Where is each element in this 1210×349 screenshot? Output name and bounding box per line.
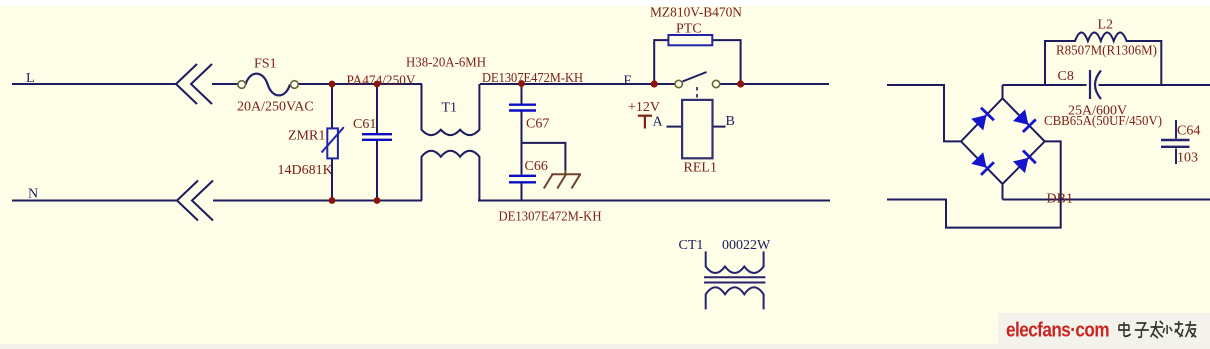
svg-text:L: L bbox=[26, 71, 35, 86]
bridge diode D3 bottom-left bbox=[972, 153, 994, 175]
svg-text:FS1: FS1 bbox=[254, 57, 277, 72]
svg-text:H38-20A-6MH: H38-20A-6MH bbox=[406, 56, 486, 71]
svg-text:elecfans·com: elecfans·com bbox=[1006, 320, 1109, 342]
capacitor C66 plates bbox=[509, 176, 536, 183]
svg-text:DE1307E472M-KH: DE1307E472M-KH bbox=[482, 71, 583, 86]
capacitor C61 leads bbox=[376, 84, 378, 133]
transformer CT1 core lines bbox=[704, 276, 765, 278]
svg-text:C8: C8 bbox=[1058, 69, 1074, 84]
chinese characters shao bbox=[1163, 321, 1183, 337]
bridge bottom output bbox=[1002, 184, 1004, 200]
right block: N rail step under bridge bbox=[887, 141, 1061, 227]
varistor ZMR1 leads bbox=[331, 84, 333, 128]
+12V power bar bbox=[638, 116, 652, 129]
svg-text:PTC: PTC bbox=[676, 22, 702, 37]
bridge top output to rail bbox=[1002, 85, 1004, 98]
wire N T1 right to gap bbox=[478, 200, 830, 202]
svg-text:103: 103 bbox=[1177, 151, 1198, 166]
relay pin B wire bbox=[713, 126, 726, 128]
wire C67 to C66 bbox=[521, 112, 523, 175]
fuse FS1 body bbox=[246, 74, 291, 96]
PTC resistor body bbox=[668, 35, 712, 45]
relay REL1 coil box bbox=[682, 100, 712, 158]
connector chevrons N line bbox=[177, 181, 213, 221]
relay pin A wire bbox=[667, 126, 683, 128]
transformer CT1 top winding bbox=[704, 251, 765, 309]
svg-text:DB1: DB1 bbox=[1047, 192, 1073, 207]
chinese characters fa bbox=[1151, 321, 1163, 338]
svg-text:DE1307E472M-KH: DE1307E472M-KH bbox=[499, 210, 602, 225]
PTC branch left vertical bbox=[654, 40, 668, 83]
svg-text:N: N bbox=[28, 187, 38, 202]
connector chevrons L line bbox=[176, 64, 212, 104]
bridge diode D4 bottom-right bbox=[1014, 151, 1036, 173]
svg-text:+12V: +12V bbox=[628, 100, 660, 115]
svg-text:R8507M(R1306M): R8507M(R1306M) bbox=[1056, 44, 1157, 59]
fuse FS1 terminal circles bbox=[238, 81, 246, 89]
svg-text:20A/250VAC: 20A/250VAC bbox=[237, 100, 314, 115]
transformer T1 top winding bbox=[422, 84, 480, 135]
DC top rail to C8 bbox=[1003, 84, 1087, 86]
wire F junction to switch bbox=[654, 83, 675, 85]
transformer T1 bottom winding bbox=[422, 151, 480, 201]
bridge diode D1 top-left bbox=[972, 108, 994, 130]
earth ground symbol bbox=[544, 170, 581, 189]
varistor ZMR1 body bbox=[322, 127, 344, 158]
wire L chevron to fuse bbox=[212, 83, 238, 85]
PTC branch right vertical bbox=[712, 40, 740, 83]
svg-text:CBB65A(50UF/450V): CBB65A(50UF/450V) bbox=[1044, 114, 1162, 129]
wire between switch circles (hidden ends) bbox=[720, 83, 744, 85]
junction dots bbox=[329, 80, 745, 204]
transformer CT1 bottom winding bbox=[706, 287, 764, 309]
svg-text:C66: C66 bbox=[525, 159, 548, 174]
elecfans watermark band bbox=[998, 313, 1210, 344]
capacitor C8 plates bbox=[1090, 70, 1101, 99]
svg-text:CT1: CT1 bbox=[679, 238, 704, 253]
DC top rail C8 to right edge bbox=[1099, 84, 1210, 86]
DC bottom rail to right edge bbox=[1003, 199, 1210, 201]
wire N chevron to T1 bbox=[213, 200, 422, 202]
capacitor C61 plates bbox=[362, 134, 392, 140]
svg-text:C64: C64 bbox=[1177, 124, 1200, 139]
svg-text:PA474/250V: PA474/250V bbox=[347, 74, 416, 89]
capacitor C66 lead to N rail bbox=[521, 184, 523, 201]
chinese characters you bbox=[1185, 321, 1196, 337]
svg-text:C61: C61 bbox=[353, 117, 376, 132]
wire fuse to T1, junctions at ZMR1/C61 bbox=[298, 83, 422, 85]
svg-text:A: A bbox=[653, 115, 664, 130]
wire L left segment bbox=[12, 83, 176, 85]
capacitor C67 lead from rail bbox=[521, 84, 523, 104]
capacitor C64 bbox=[1161, 120, 1190, 164]
svg-text:L2: L2 bbox=[1098, 18, 1114, 33]
chinese characters zi bbox=[1135, 323, 1149, 337]
svg-text:C67: C67 bbox=[526, 117, 549, 132]
svg-text:F: F bbox=[624, 74, 632, 89]
wire branch to earth bbox=[522, 143, 566, 170]
switch blade bbox=[683, 72, 707, 82]
svg-text:00022W: 00022W bbox=[722, 238, 771, 253]
switch S1 contact circles bbox=[675, 80, 682, 87]
svg-text:REL1: REL1 bbox=[684, 161, 717, 176]
wire T1 right to F junction bbox=[480, 83, 654, 85]
svg-text:MZ810V-B470N: MZ810V-B470N bbox=[650, 6, 742, 21]
svg-text:T1: T1 bbox=[442, 101, 458, 116]
inductor L2 branch bbox=[1045, 33, 1161, 86]
bridge DB1 diamond bbox=[961, 98, 1045, 184]
bridge diode D2 top-right bbox=[1014, 110, 1036, 132]
right block: top rail to bridge bbox=[887, 85, 961, 141]
wire N left segment bbox=[12, 200, 177, 202]
svg-text:B: B bbox=[726, 114, 735, 129]
wire switch to PTC right junction then right segment bbox=[744, 83, 829, 85]
relay actuator dashed link bbox=[696, 87, 698, 99]
chinese characters dian bbox=[1119, 322, 1131, 336]
svg-text:14D681K: 14D681K bbox=[278, 163, 333, 178]
capacitor C67 plates bbox=[509, 105, 536, 111]
svg-text:ZMR1: ZMR1 bbox=[288, 129, 325, 144]
